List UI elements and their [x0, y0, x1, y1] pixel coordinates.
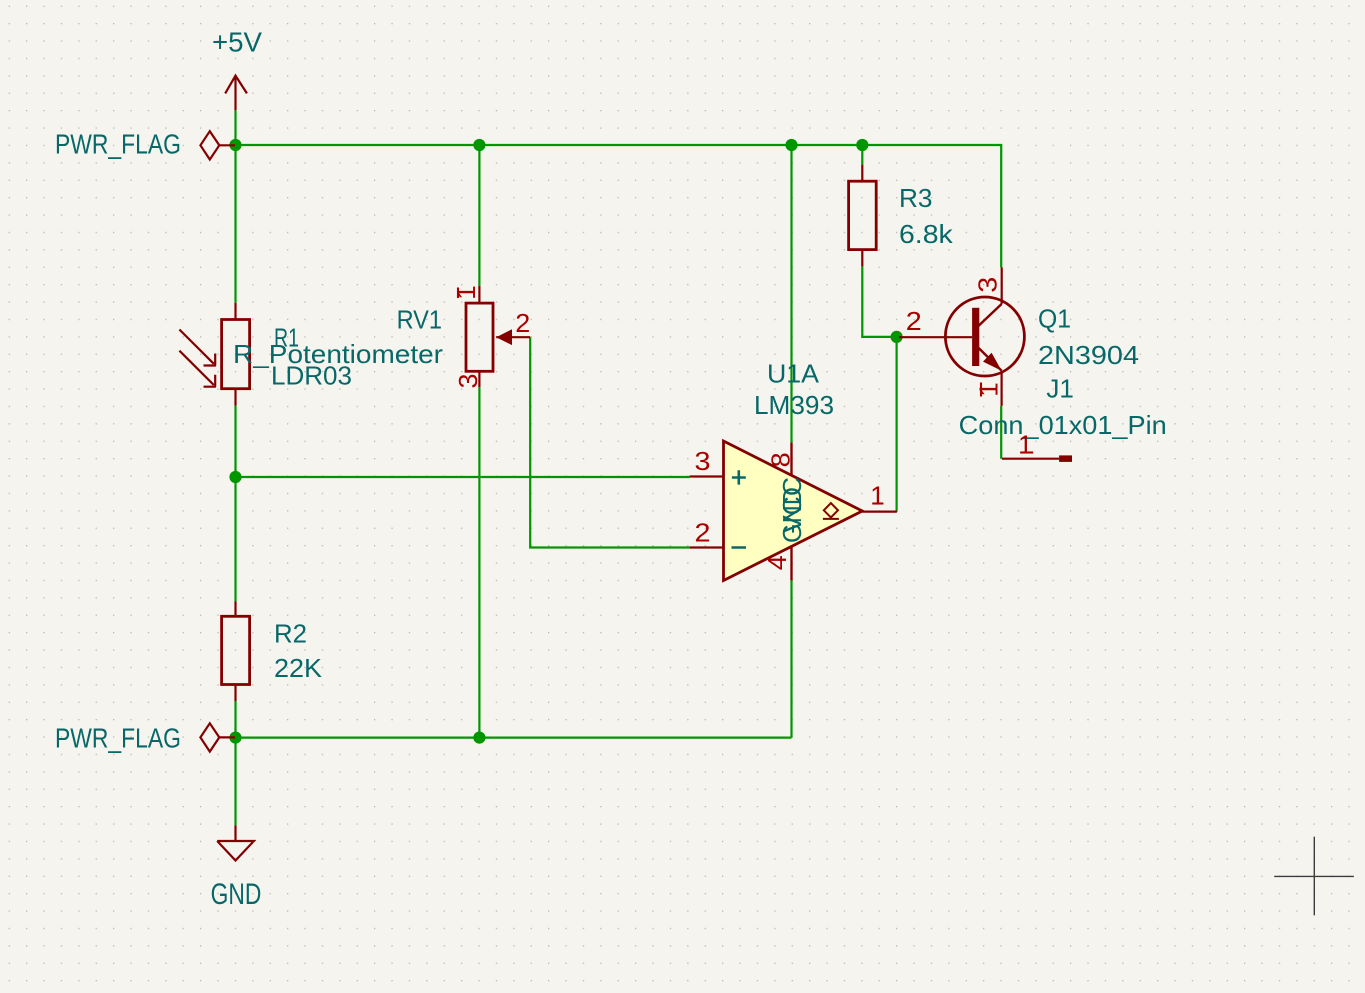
- svg-text:3: 3: [973, 277, 1003, 293]
- svg-text:6.8k: 6.8k: [899, 219, 954, 249]
- svg-text:2: 2: [515, 308, 530, 338]
- svg-text:LM393: LM393: [754, 390, 834, 420]
- svg-text:VCC: VCC: [777, 477, 807, 533]
- svg-text:1: 1: [451, 285, 481, 299]
- svg-text:PWR_FLAG: PWR_FLAG: [55, 129, 181, 160]
- svg-text:GND: GND: [211, 878, 262, 911]
- svg-text:+5V: +5V: [212, 27, 262, 58]
- svg-text:3: 3: [695, 446, 711, 476]
- svg-text:R3: R3: [899, 183, 933, 213]
- svg-text:RV1: RV1: [397, 305, 442, 335]
- svg-text:22K: 22K: [274, 653, 323, 683]
- svg-text:R_Potentiometer: R_Potentiometer: [233, 339, 443, 369]
- svg-text:U1A: U1A: [767, 358, 820, 388]
- svg-text:Q1: Q1: [1038, 304, 1071, 334]
- svg-text:8: 8: [765, 452, 795, 467]
- svg-text:1: 1: [974, 382, 1004, 396]
- svg-text:Conn_01x01_Pin: Conn_01x01_Pin: [959, 410, 1167, 440]
- svg-text:1: 1: [1018, 430, 1032, 460]
- svg-text:R2: R2: [274, 619, 307, 649]
- svg-text:2N3904: 2N3904: [1038, 340, 1139, 370]
- svg-text:J1: J1: [1046, 373, 1074, 403]
- svg-text:2: 2: [695, 518, 711, 548]
- svg-text:3: 3: [453, 374, 483, 389]
- svg-text:PWR_FLAG: PWR_FLAG: [55, 722, 181, 753]
- svg-text:1: 1: [870, 481, 884, 511]
- svg-text:4: 4: [762, 555, 792, 570]
- svg-text:2: 2: [906, 306, 922, 336]
